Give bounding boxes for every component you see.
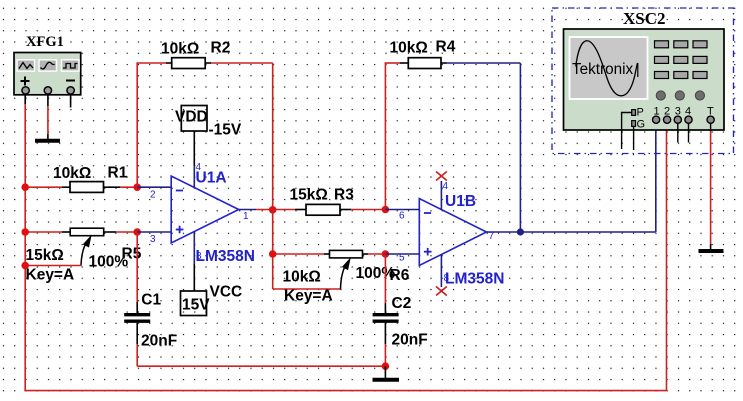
svg-text:6: 6 xyxy=(399,211,405,222)
svg-text:U1A: U1A xyxy=(196,170,227,187)
svg-text:4: 4 xyxy=(443,181,449,192)
wire node to C2 top xyxy=(384,254,386,313)
svg-text:R4: R4 xyxy=(436,39,456,56)
capacitor C2 xyxy=(373,315,399,322)
svg-text:15V: 15V xyxy=(182,297,210,314)
resistor R4 xyxy=(400,58,447,69)
wire R2 feedback rail xyxy=(136,63,166,187)
wire U1B output to XSC2 channel 1 xyxy=(520,124,655,233)
op-amp U1B xyxy=(385,181,520,287)
unconnected pin marker X top U1B xyxy=(436,172,447,181)
unconnected pin marker X bottom U1B xyxy=(436,287,447,296)
svg-text:3: 3 xyxy=(150,234,156,245)
resistor R1 xyxy=(62,182,120,193)
svg-text:1: 1 xyxy=(654,106,660,118)
node R1 left junction xyxy=(21,183,29,191)
potentiometer R6 xyxy=(324,250,368,289)
svg-text:1: 1 xyxy=(243,211,249,222)
wire XFG1 - stub xyxy=(70,94,72,108)
capacitor C1 xyxy=(124,315,150,322)
wire XSC2 trigger to ground xyxy=(710,123,712,244)
svg-text:15kΩ: 15kΩ xyxy=(290,187,328,204)
wire R3 left xyxy=(273,209,295,211)
node R5 left junction xyxy=(21,228,29,236)
svg-text:P: P xyxy=(637,107,644,119)
wire R1 left xyxy=(25,186,62,188)
wire R4 rail xyxy=(385,63,400,210)
oscilloscope XSC2 selection box xyxy=(552,8,734,154)
svg-text:XFG1: XFG1 xyxy=(26,34,64,50)
node R3/R4/U1B- junction xyxy=(382,206,390,214)
svg-text:10kΩ: 10kΩ xyxy=(161,41,199,58)
svg-text:Key=A: Key=A xyxy=(284,288,333,305)
svg-text:10kΩ: 10kΩ xyxy=(283,269,321,286)
wire output rail down to R6 xyxy=(273,210,324,289)
svg-text:10kΩ: 10kΩ xyxy=(390,40,428,57)
resistor R2 xyxy=(166,58,211,69)
svg-text:R2: R2 xyxy=(211,40,231,57)
svg-text:7: 7 xyxy=(489,231,495,242)
svg-text:C1: C1 xyxy=(141,292,161,309)
wire XSC2 G stub xyxy=(633,126,635,150)
wire R2 right to output rail xyxy=(211,63,273,210)
wire XSC2 channel 4 stub xyxy=(688,123,690,142)
wire R4 right to U1B output xyxy=(447,63,521,232)
svg-text:Tektronix: Tektronix xyxy=(572,61,634,78)
wire R6 wiper xyxy=(273,288,341,290)
svg-text:R6: R6 xyxy=(390,267,410,284)
svg-text:T: T xyxy=(707,106,714,118)
svg-text:LM358N: LM358N xyxy=(196,248,255,265)
svg-text:R1: R1 xyxy=(108,165,128,182)
wire R5 wiper xyxy=(25,265,81,267)
svg-text:LM358N: LM358N xyxy=(445,271,504,288)
wire R5 right to node xyxy=(116,231,137,233)
wire XSC2 P stub xyxy=(622,113,632,150)
node R6/C2/U1B+ junction xyxy=(382,250,390,258)
svg-text:3: 3 xyxy=(675,106,681,118)
svg-text:10kΩ: 10kΩ xyxy=(53,165,91,182)
svg-text:15kΩ: 15kΩ xyxy=(26,247,64,264)
svg-text:XSC2: XSC2 xyxy=(623,9,666,28)
ground under XSC2 trigger xyxy=(699,244,724,251)
node R6 left junction xyxy=(269,250,277,258)
svg-text:R5: R5 xyxy=(122,246,142,263)
wire XSC2 channel 3 stub xyxy=(677,123,679,142)
node ground rail junction xyxy=(382,362,390,370)
wire R3 right to node xyxy=(351,209,385,211)
function generator XFG1 xyxy=(14,53,81,95)
power VDD symbol xyxy=(181,106,207,166)
svg-text:Key=A: Key=A xyxy=(26,267,75,284)
op-amp U1A xyxy=(137,166,256,265)
svg-text:U1B: U1B xyxy=(445,193,476,210)
node R5/C1/U1A+ junction xyxy=(133,228,141,236)
resistor R3 xyxy=(295,204,351,215)
wire R1 right to node xyxy=(120,186,137,188)
ground under XFG1 xyxy=(35,134,60,141)
wire C2 bottom to ground node xyxy=(384,323,386,366)
power VCC symbol xyxy=(181,264,207,316)
wire R6 right to node xyxy=(368,253,385,255)
svg-text:20nF: 20nF xyxy=(392,332,428,349)
svg-text:VCC: VCC xyxy=(210,284,243,301)
svg-text:C2: C2 xyxy=(392,295,412,312)
ground under C2 xyxy=(373,366,400,380)
node R5 wiper junction xyxy=(21,262,29,270)
wire bottom rail to XSC2 channel 2 xyxy=(24,123,666,391)
node R1/R2/U1A- junction xyxy=(133,183,141,191)
svg-text:20nF: 20nF xyxy=(141,332,177,349)
node U1A output junction xyxy=(269,206,277,214)
node U1B output junction xyxy=(517,228,524,235)
svg-text:4: 4 xyxy=(685,106,691,118)
wire XFG1 + output down left rail xyxy=(24,94,26,391)
wire C1 bottom to ground rail xyxy=(137,323,385,366)
svg-text:2: 2 xyxy=(150,190,156,201)
svg-text:VDD: VDD xyxy=(175,109,208,126)
wire node to C1 top xyxy=(136,232,138,313)
svg-text:R3: R3 xyxy=(334,187,354,204)
wire R5 left xyxy=(25,231,62,233)
svg-text:5: 5 xyxy=(399,253,405,264)
svg-text:-15V: -15V xyxy=(209,122,242,139)
potentiometer R5 xyxy=(62,228,116,265)
svg-text:G: G xyxy=(637,119,646,131)
oscilloscope XSC2 xyxy=(564,29,725,130)
svg-text:2: 2 xyxy=(664,106,670,118)
wire XFG1 common to ground xyxy=(47,94,49,134)
wire U1A output to node xyxy=(256,209,273,211)
